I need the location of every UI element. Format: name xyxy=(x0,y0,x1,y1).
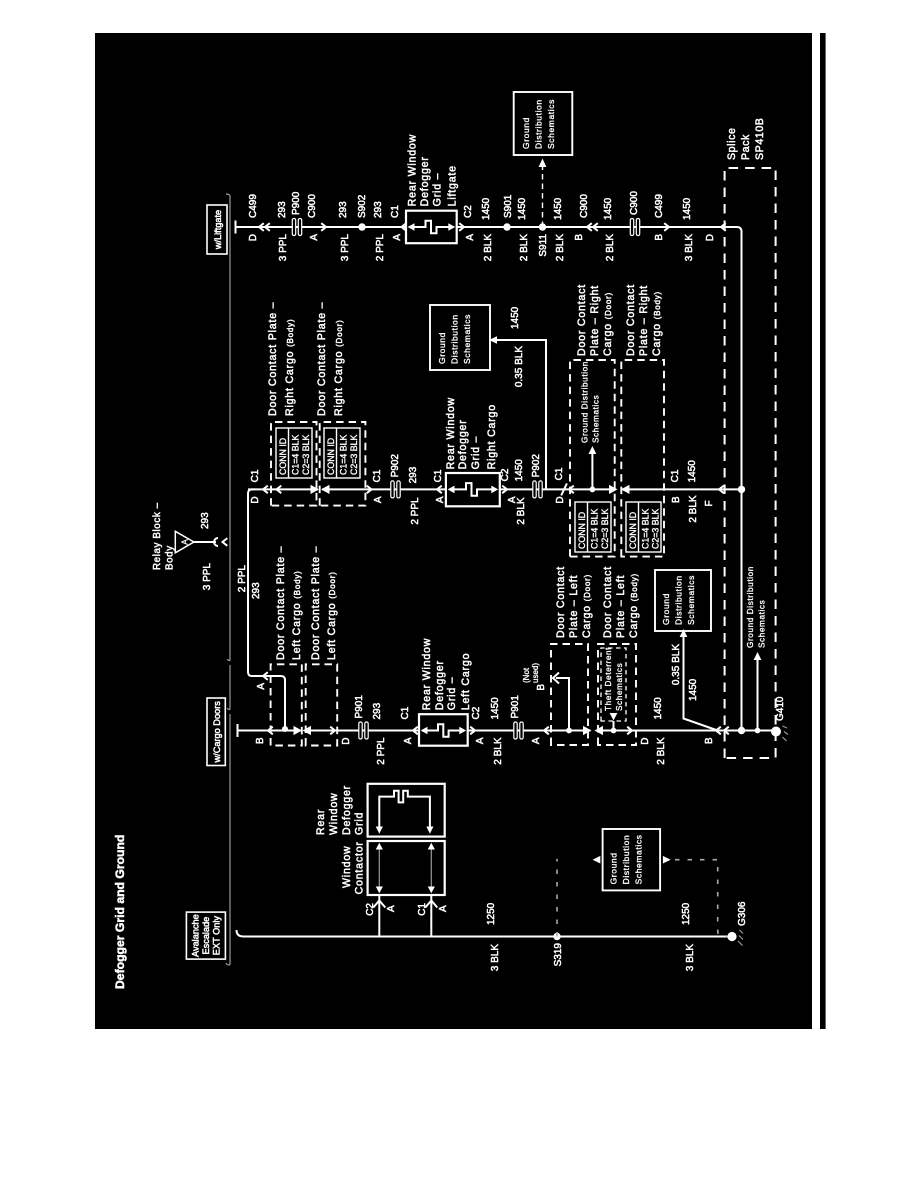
dashed lead to ground distribution xyxy=(542,167,544,227)
window contactor grid box xyxy=(368,841,445,895)
svg-text:C2: C2 xyxy=(463,205,474,218)
svg-text:Schematics: Schematics xyxy=(592,395,601,443)
svg-text:Defogger: Defogger xyxy=(457,419,469,469)
svg-text:3 BLK: 3 BLK xyxy=(684,234,695,262)
door contact plate left cargo (body) return dashed box xyxy=(598,644,636,745)
svg-text:Left Cargo: Left Cargo xyxy=(460,653,472,710)
svg-text:C2=3 BLK: C2=3 BLK xyxy=(349,435,359,475)
ground G410 xyxy=(771,727,781,737)
svg-text:Left Cargo (Door): Left Cargo (Door) xyxy=(326,571,338,660)
inline connector C900 xyxy=(630,219,639,236)
svg-text:Door Contact Plate –: Door Contact Plate – xyxy=(316,302,328,416)
svg-text:C1=4 BLK: C1=4 BLK xyxy=(291,435,301,475)
svg-text:Defogger: Defogger xyxy=(341,785,353,835)
svg-text:1450: 1450 xyxy=(481,197,492,220)
connector chevron into body box xyxy=(268,727,273,735)
svg-text:A: A xyxy=(475,737,486,744)
svg-text:C1=4 BLK: C1=4 BLK xyxy=(641,509,651,549)
svg-text:CONN ID: CONN ID xyxy=(628,512,638,549)
svg-text:3 PPL: 3 PPL xyxy=(278,234,289,262)
svg-text:C2: C2 xyxy=(365,903,376,916)
ground distribution branch inside door box xyxy=(590,487,596,493)
svg-text:C1=4 BLK: C1=4 BLK xyxy=(590,509,600,549)
door contact plate left cargo (door) dashed box xyxy=(306,664,338,745)
connector chevron into door box xyxy=(569,486,574,494)
svg-text:P900: P900 xyxy=(291,191,302,215)
svg-text:A: A xyxy=(392,234,403,241)
chevron inside body box xyxy=(277,486,282,494)
inline connector P902 xyxy=(391,481,400,498)
svg-text:Schematics: Schematics xyxy=(686,575,696,625)
svg-text:1450: 1450 xyxy=(553,197,564,220)
relay block pennant xyxy=(175,531,194,553)
svg-text:Theft Deterrent: Theft Deterrent xyxy=(604,647,613,711)
svg-text:C499: C499 xyxy=(248,194,259,218)
defogger grid element (liftgate) xyxy=(412,221,451,234)
svg-text:Right Cargo (Body): Right Cargo (Body) xyxy=(284,319,296,416)
svg-text:Left Cargo (Body): Left Cargo (Body) xyxy=(291,570,303,660)
svg-text:C2: C2 xyxy=(500,468,511,481)
junction dot on splice bus xyxy=(738,486,745,493)
svg-text:3 PPL: 3 PPL xyxy=(202,563,213,591)
wire: avalanche chain with start curl xyxy=(237,930,728,937)
svg-text:1450: 1450 xyxy=(490,697,501,720)
contact plate mating arrows (return) xyxy=(609,485,618,494)
option bracket rule xyxy=(226,194,230,965)
svg-text:Schematics: Schematics xyxy=(634,834,644,884)
svg-text:Door Contact: Door Contact xyxy=(625,284,637,356)
rear window defogger grid box (avalanche) xyxy=(368,784,445,837)
svg-text:B: B xyxy=(574,234,585,241)
svg-text:Distribution: Distribution xyxy=(450,314,460,364)
junction dot left-cargo feed xyxy=(282,726,288,732)
svg-text:Door Contact: Door Contact xyxy=(555,566,567,638)
wire: left cargo chain lower xyxy=(468,730,591,732)
label Rear Window Defogger Grid - Right Cargo xyxy=(445,397,498,469)
svg-text:Window: Window xyxy=(341,846,353,888)
svg-text:Contactor: Contactor xyxy=(354,841,366,894)
label Door Contact Plate - Left Cargo (Door) xyxy=(555,566,593,638)
svg-text:3 BLK: 3 BLK xyxy=(490,944,501,972)
svg-text:2 BLK: 2 BLK xyxy=(605,234,616,262)
svg-text:1450: 1450 xyxy=(682,197,693,220)
splice pack SP410B dashed box xyxy=(725,168,776,758)
svg-text:2 PPL: 2 PPL xyxy=(237,565,248,593)
rear window defogger grid right cargo box xyxy=(446,473,500,506)
svg-text:Ground Distribution: Ground Distribution xyxy=(581,361,590,443)
wire: 2 PPL feed run xyxy=(248,489,285,729)
svg-text:Rear Window: Rear Window xyxy=(445,397,457,469)
chevron into splice pack xyxy=(719,486,724,494)
connector chevron exit door box xyxy=(330,727,335,735)
ground G306 xyxy=(727,932,736,941)
svg-text:Door Contact: Door Contact xyxy=(602,566,614,638)
svg-text:2 PPL: 2 PPL xyxy=(376,737,387,765)
ground distribution schematics box (left cargo) xyxy=(655,570,711,631)
svg-text:Relay Block –: Relay Block – xyxy=(152,502,163,570)
svg-text:D: D xyxy=(705,234,716,241)
inline connector P902 (return) xyxy=(533,481,542,498)
svg-text:Distribution: Distribution xyxy=(621,835,631,885)
defogger grid element (avalanche) xyxy=(379,791,430,828)
svg-text:Schematics: Schematics xyxy=(615,663,624,711)
svg-text:CONN ID: CONN ID xyxy=(278,438,288,475)
chevrons into splice pack xyxy=(716,727,721,735)
door contact plate left cargo (door) return dashed box xyxy=(551,644,588,745)
svg-text:0.35 BLK: 0.35 BLK xyxy=(514,346,525,387)
contact plate mating arrows xyxy=(311,485,320,494)
connector chevron into bracket xyxy=(223,538,228,546)
svg-text:2 BLK: 2 BLK xyxy=(516,497,527,525)
svg-text:Plate – Right: Plate – Right xyxy=(638,285,650,356)
label Door Contact Plate - Right Cargo (Door) xyxy=(576,284,614,356)
svg-text:0.35 BLK: 0.35 BLK xyxy=(671,644,682,685)
svg-text:A: A xyxy=(373,496,384,503)
svg-text:Liftgate: Liftgate xyxy=(447,165,459,206)
svg-text:Ground: Ground xyxy=(437,332,447,364)
svg-text:Cargo (Door): Cargo (Door) xyxy=(602,292,614,356)
wire: liftgate chain upper xyxy=(236,226,407,228)
svg-text:w/Liftgate: w/Liftgate xyxy=(213,210,223,250)
svg-text:F: F xyxy=(704,500,715,506)
section box: w/Liftgate xyxy=(207,205,227,254)
svg-text:P902: P902 xyxy=(390,454,401,478)
theft deterrent schematics dashed box xyxy=(601,647,626,721)
svg-text:Distribution: Distribution xyxy=(534,99,544,149)
svg-text:Grid –: Grid – xyxy=(432,173,444,207)
svg-text:293: 293 xyxy=(200,512,211,529)
wire: left cargo chain upper xyxy=(238,730,295,732)
svg-text:1450: 1450 xyxy=(517,197,528,220)
connector chevron C900 xyxy=(321,223,326,231)
rear window defogger grid liftgate box xyxy=(406,211,457,244)
svg-text:C1: C1 xyxy=(400,706,411,719)
door contact plate right cargo (door) return dashed box xyxy=(570,360,615,557)
connector chevron C2 xyxy=(470,727,475,735)
svg-text:2 BLK: 2 BLK xyxy=(688,495,699,523)
inline connector P901 (return) xyxy=(514,722,523,739)
svg-text:Splice: Splice xyxy=(726,128,738,160)
branch to window contactor C1-A xyxy=(430,895,432,937)
wire: left cargo chain mid xyxy=(311,730,419,732)
connector chevron C1 xyxy=(402,223,407,231)
svg-text:S901: S901 xyxy=(503,194,514,218)
svg-text:C1: C1 xyxy=(250,469,261,482)
svg-text:C900: C900 xyxy=(307,194,318,218)
svg-text:1450: 1450 xyxy=(687,460,698,483)
svg-text:Ground: Ground xyxy=(661,593,671,625)
svg-text:293: 293 xyxy=(408,466,419,483)
svg-text:CONN ID: CONN ID xyxy=(326,438,336,475)
ground distribution schematics box (right cargo) xyxy=(430,305,490,370)
svg-text:Cargo (Body): Cargo (Body) xyxy=(628,573,640,638)
door contact plate right cargo (body) return dashed box xyxy=(621,360,664,557)
rear window defogger grid left cargo box xyxy=(419,714,468,746)
contact plate mating arrows (left return) xyxy=(583,726,592,735)
svg-text:Plate – Left: Plate – Left xyxy=(615,575,627,638)
svg-text:C1: C1 xyxy=(433,469,444,482)
svg-text:1450: 1450 xyxy=(514,459,525,482)
svg-text:1250: 1250 xyxy=(681,902,692,925)
theft deterrent branch xyxy=(613,721,615,731)
svg-text:3 BLK: 3 BLK xyxy=(685,944,696,972)
0.35 BLK ground branch (right cargo) xyxy=(496,340,546,489)
label Door Contact Plate - Right Cargo (Body) xyxy=(625,284,663,356)
svg-text:2 BLK: 2 BLK xyxy=(493,737,504,765)
svg-text:C900: C900 xyxy=(629,191,640,215)
svg-text:A: A xyxy=(181,539,190,545)
svg-text:B: B xyxy=(654,234,665,241)
section box: Avalanche Escalade EXT Only xyxy=(186,912,225,959)
conn id table (door return) xyxy=(575,502,611,552)
svg-text:Rear Window: Rear Window xyxy=(421,638,433,710)
svg-text:A: A xyxy=(386,905,397,912)
svg-text:B: B xyxy=(255,737,266,744)
svg-text:2 BLK: 2 BLK xyxy=(483,234,494,262)
svg-text:C1: C1 xyxy=(390,205,401,218)
svg-text:Schematics: Schematics xyxy=(546,99,556,149)
svg-text:C900: C900 xyxy=(579,194,590,218)
svg-text:C1: C1 xyxy=(372,469,383,482)
svg-text:Ground: Ground xyxy=(609,852,619,884)
svg-text:S911: S911 xyxy=(538,234,549,257)
svg-text:Defogger: Defogger xyxy=(419,156,431,206)
svg-text:1450: 1450 xyxy=(603,197,614,220)
svg-text:293: 293 xyxy=(251,582,262,599)
svg-text:G306: G306 xyxy=(737,901,748,926)
svg-text:Schematics: Schematics xyxy=(462,314,472,364)
svg-text:3 PPL: 3 PPL xyxy=(340,234,351,262)
label Door Contact Plate - Left Cargo (Body) xyxy=(275,546,303,660)
door contact plate right cargo (door) dashed box xyxy=(320,422,366,506)
svg-text:A: A xyxy=(309,234,320,241)
page black panel xyxy=(95,33,812,1029)
svg-text:B: B xyxy=(704,737,715,744)
svg-text:1450: 1450 xyxy=(688,678,699,701)
svg-text:A: A xyxy=(256,683,267,690)
connector chevron C2 xyxy=(459,223,464,231)
svg-text:D: D xyxy=(341,738,352,745)
svg-text:C1=4 BLK: C1=4 BLK xyxy=(339,435,349,475)
svg-text:C2: C2 xyxy=(471,706,482,719)
splice S902 xyxy=(358,223,365,230)
label Splice Pack SP410B xyxy=(726,118,766,160)
svg-text:SP410B: SP410B xyxy=(754,118,766,160)
label Relay Block - Body xyxy=(152,502,176,570)
wire: right cargo chain lower xyxy=(500,488,609,490)
connector chevron exit body box xyxy=(627,727,632,735)
svg-text:Avalanche: Avalanche xyxy=(191,914,201,957)
svg-text:Grid –: Grid – xyxy=(446,677,458,711)
svg-text:P901: P901 xyxy=(510,695,521,719)
svg-text:EXT Only: EXT Only xyxy=(212,916,222,956)
svg-text:Distribution: Distribution xyxy=(674,575,684,625)
svg-text:1250: 1250 xyxy=(486,902,497,925)
svg-text:S902: S902 xyxy=(357,194,368,218)
relay feed curl cap xyxy=(214,538,218,546)
svg-text:Ground Distribution: Ground Distribution xyxy=(746,566,755,648)
svg-text:C1: C1 xyxy=(670,469,681,482)
conn id table (body return) xyxy=(626,502,661,552)
svg-text:A: A xyxy=(435,496,446,503)
svg-text:2 PPL: 2 PPL xyxy=(410,497,421,525)
label Door Contact Plate - Right Cargo (Body) xyxy=(267,302,296,416)
splice S319 xyxy=(553,933,560,940)
svg-text:Right Cargo: Right Cargo xyxy=(486,404,498,469)
svg-text:D: D xyxy=(250,496,261,503)
svg-text:2 BLK: 2 BLK xyxy=(555,234,566,262)
svg-text:C2=3 BLK: C2=3 BLK xyxy=(301,435,311,475)
ground distribution schematics box (avalanche) xyxy=(603,829,661,890)
wire: liftgate chain lower xyxy=(457,226,724,228)
svg-text:C2=3 BLK: C2=3 BLK xyxy=(600,509,610,549)
wire: relay feed drop xyxy=(194,541,216,543)
door contact plate left cargo (body) dashed box xyxy=(271,664,302,745)
svg-text:Plate – Right: Plate – Right xyxy=(589,285,601,356)
splice bus wire xyxy=(741,232,743,731)
svg-text:293: 293 xyxy=(338,201,349,218)
junction dot bus/left chain xyxy=(738,727,745,734)
contactor strips xyxy=(379,848,431,888)
svg-text:C2=3 BLK: C2=3 BLK xyxy=(651,509,661,549)
svg-text:Grid: Grid xyxy=(354,812,366,835)
svg-text:Window: Window xyxy=(328,793,340,835)
inline connector P901 xyxy=(359,722,368,739)
splice S911 xyxy=(539,223,546,230)
svg-text:C1: C1 xyxy=(554,467,565,480)
svg-text:w/Cargo Doors: w/Cargo Doors xyxy=(212,701,222,764)
connector chevron C1-D xyxy=(263,486,268,494)
svg-text:2 PPL: 2 PPL xyxy=(375,234,386,262)
svg-text:Pack: Pack xyxy=(740,134,752,160)
connector chevron into grid xyxy=(413,727,418,735)
svg-text:D: D xyxy=(640,738,651,745)
svg-text:Door Contact Plate –: Door Contact Plate – xyxy=(275,546,287,660)
connector chevron xyxy=(544,727,549,735)
stub B (Not used) xyxy=(556,678,569,731)
svg-text:2 BLK: 2 BLK xyxy=(519,234,530,262)
0.35 BLK ground branch (left cargo) xyxy=(684,637,718,731)
svg-text:P902: P902 xyxy=(531,454,542,478)
dashed lead S319 to ground distribution xyxy=(556,859,558,937)
label Rear Window Defogger Grid (avalanche) xyxy=(315,785,366,835)
svg-text:Rear: Rear xyxy=(315,809,327,835)
svg-text:Escalade: Escalade xyxy=(201,917,211,955)
svg-text:1450: 1450 xyxy=(653,697,664,720)
chevron into splice pack xyxy=(721,223,726,231)
svg-text:G410: G410 xyxy=(775,696,786,721)
inline connector P900 xyxy=(292,219,301,236)
contact plate mating arrows (left feed) xyxy=(294,726,303,735)
label Door Contact Plate - Left Cargo (Door) xyxy=(310,546,338,660)
defogger grid element (right cargo) xyxy=(452,483,493,496)
svg-text:D: D xyxy=(555,496,566,503)
wire: right cargo chain mid xyxy=(322,488,446,490)
connector chevron into grid xyxy=(437,486,442,494)
connector chevron C499 xyxy=(664,223,669,231)
svg-text:Plate – Left: Plate – Left xyxy=(568,575,580,638)
svg-text:used): used) xyxy=(531,663,540,683)
svg-text:293: 293 xyxy=(277,201,288,218)
svg-text:Right Cargo (Door): Right Cargo (Door) xyxy=(333,319,345,416)
svg-text:Door Contact Plate –: Door Contact Plate – xyxy=(267,302,279,416)
svg-text:A: A xyxy=(438,905,449,912)
wire: bend into splice bus xyxy=(724,227,742,232)
svg-text:2 BLK: 2 BLK xyxy=(656,737,667,765)
svg-text:Ground: Ground xyxy=(521,117,531,149)
svg-text:Cargo (Body): Cargo (Body) xyxy=(651,291,663,356)
dashed lead ground distribution to G306 xyxy=(663,856,671,864)
svg-text:1450: 1450 xyxy=(510,306,521,329)
svg-text:B: B xyxy=(536,684,547,691)
label Rear Window Defogger Grid - Left Cargo xyxy=(421,638,472,710)
branch to window contactor C2-A xyxy=(378,895,380,937)
connector chevron A (feed into body box) xyxy=(263,672,268,680)
svg-text:(Not: (Not xyxy=(522,667,531,683)
svg-text:Grid –: Grid – xyxy=(470,436,482,470)
connector chevron C2 xyxy=(502,486,507,494)
svg-text:C1: C1 xyxy=(417,903,428,916)
svg-text:Defogger Grid and Ground: Defogger Grid and Ground xyxy=(113,835,127,989)
svg-text:Rear Window: Rear Window xyxy=(407,134,419,206)
label Window Contactor Grid xyxy=(341,841,366,894)
connector C499-D chevrons xyxy=(259,223,264,231)
defogger grid element (left cargo) xyxy=(425,724,461,737)
node C499 terminal D cap xyxy=(235,221,237,234)
label Door Contact Plate - Left Cargo (Body) xyxy=(602,566,640,638)
ground distribution schematics box (top right) xyxy=(514,92,573,155)
conn id table (door) xyxy=(324,428,360,478)
wire: right cargo chain upper xyxy=(248,488,318,490)
svg-text:293: 293 xyxy=(373,201,384,218)
page spine bar xyxy=(820,33,826,1029)
conn id table (body) xyxy=(276,428,312,478)
svg-text:A: A xyxy=(403,737,414,744)
svg-text:B: B xyxy=(671,496,682,503)
door contact plate right cargo (body) dashed box xyxy=(271,422,317,506)
svg-text:CONN ID: CONN ID xyxy=(577,512,587,549)
section box: w/Cargo Doors xyxy=(207,698,225,766)
svg-text:Door Contact Plate –: Door Contact Plate – xyxy=(310,546,322,660)
svg-text:P901: P901 xyxy=(354,695,365,719)
svg-text:A: A xyxy=(465,234,476,241)
svg-text:Schematics: Schematics xyxy=(758,600,767,648)
connector chevrons C900 xyxy=(587,223,592,231)
svg-text:Door Contact: Door Contact xyxy=(576,284,588,356)
svg-text:Cargo (Door): Cargo (Door) xyxy=(581,574,593,638)
svg-text:293: 293 xyxy=(372,702,383,719)
wire: left cargo to splice xyxy=(603,730,772,732)
wire: right cargo to splice xyxy=(622,488,742,490)
connector chevron exit door box xyxy=(367,486,372,494)
node cap left cargo feed xyxy=(237,724,239,737)
svg-text:C499: C499 xyxy=(654,194,665,218)
ground distribution branch inside splice pack xyxy=(755,728,761,734)
label Rear Window Defogger Grid - Liftgate xyxy=(407,134,459,206)
svg-text:A: A xyxy=(531,737,542,744)
svg-text:Body: Body xyxy=(165,545,176,570)
splice S901 xyxy=(503,223,510,230)
svg-text:S319: S319 xyxy=(553,943,564,967)
svg-text:D: D xyxy=(248,234,259,241)
label Door Contact Plate - Right Cargo (Door) xyxy=(316,302,345,416)
svg-text:Defogger: Defogger xyxy=(434,660,446,710)
